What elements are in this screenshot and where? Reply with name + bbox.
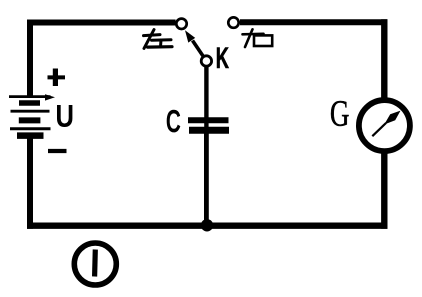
galvanometer G circle	[359, 100, 410, 151]
switch arm arrowhead	[185, 30, 195, 42]
wire switch to capacitor	[204, 67, 208, 128]
battery U plate long 1	[9, 95, 51, 98]
battery U plate long 3	[10, 127, 51, 130]
label you (right) hanzi	[243, 29, 273, 47]
label zuo (left) hanzi	[144, 30, 173, 49]
wire right vertical upper	[381, 19, 387, 100]
switch arm	[193, 41, 204, 57]
capacitor C bottom plate	[189, 127, 229, 134]
galvanometer needle tail	[372, 123, 386, 136]
label U	[57, 105, 72, 127]
label K	[217, 48, 229, 68]
wire top-right segment	[240, 19, 387, 25]
capacitor C top plate	[188, 117, 229, 123]
switch contact right	[228, 17, 238, 27]
label G	[331, 101, 349, 126]
battery U plate short 2	[19, 117, 41, 123]
label C	[167, 110, 181, 133]
battery U plate short 3	[17, 132, 44, 139]
minus sign	[48, 149, 67, 153]
plus sign	[48, 69, 66, 87]
figure number circled 1	[74, 243, 116, 285]
wire top-left segment	[27, 20, 176, 26]
switch contact left	[176, 19, 186, 29]
wire left vertical upper	[27, 20, 33, 98]
switch pivot K	[201, 56, 211, 66]
wire right vertical lower	[381, 151, 387, 229]
wire capacitor to bottom	[204, 132, 209, 226]
wire left vertical lower	[27, 135, 33, 229]
junction node dot	[201, 219, 213, 231]
battery U plate long 2	[11, 110, 50, 113]
wire bottom	[27, 222, 387, 228]
battery U plate short 1	[19, 100, 40, 106]
galvanometer needle head	[384, 111, 400, 125]
battery arrow mark on top plate	[45, 94, 55, 100]
